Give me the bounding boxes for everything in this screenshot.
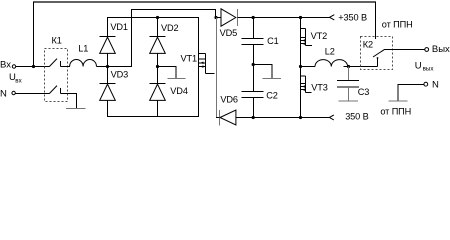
ground chassis G1 (66, 108, 85, 110)
wire midpoint to ground (253, 65, 272, 79)
svg-text:U: U (415, 61, 422, 72)
wire node B to ground (158, 67, 177, 79)
wire N out to ground (398, 85, 424, 102)
diode VD3 (107, 67, 109, 84)
svg-text:К2: К2 (363, 39, 373, 49)
wire N to K1 (15, 93, 49, 95)
svg-text:VD5: VD5 (220, 28, 238, 38)
relay K2 dashed box (361, 37, 393, 70)
node VT2 top (299, 16, 302, 19)
svg-text:VD6: VD6 (220, 95, 238, 105)
wire L2 to K2 (344, 66, 378, 68)
svg-text:вх: вх (15, 77, 22, 84)
capacitor C1 (253, 18, 255, 39)
wire L1 to node A (97, 66, 108, 68)
node A (106, 65, 109, 68)
svg-text:Вх: Вх (0, 60, 11, 71)
node C1/C2 midpoint (252, 63, 255, 66)
bridge right edge / VT1 bus (198, 18, 200, 117)
node VD5 anode junction (214, 16, 217, 19)
svg-text:L2: L2 (325, 46, 335, 56)
node C3 tap (347, 65, 350, 68)
diode VD2 (157, 18, 159, 37)
ground chassis C3 (339, 100, 359, 102)
contact K1.1 arm (49, 59, 57, 67)
wire bypass left drop (33, 2, 35, 67)
node C2 bottom (252, 116, 255, 119)
transistor VT2 (300, 18, 302, 67)
svg-text:VT3: VT3 (311, 82, 328, 92)
arrow +350 В (330, 15, 335, 20)
bridge top rail (107, 17, 199, 19)
svg-text:350 В: 350 В (345, 111, 368, 121)
ground chassis G3 (263, 78, 282, 80)
node VD2 top (156, 16, 159, 19)
svg-text:VD4: VD4 (170, 86, 188, 96)
transistor VT1 (199, 53, 206, 55)
arrow 350 В (329, 115, 333, 120)
node inverter midpoint (299, 65, 302, 68)
contact K2 fixed lower (377, 59, 379, 67)
bridge bottom rail (107, 116, 199, 118)
svg-text:C2: C2 (266, 90, 278, 100)
transistor VT3 (300, 67, 302, 118)
relay K1 dashed box (45, 49, 68, 102)
node bypass tap (32, 65, 35, 68)
contact K1.2 fixed (60, 88, 62, 94)
svg-text:VT2: VT2 (311, 31, 328, 41)
capacitor C2 (253, 65, 255, 92)
node C1 top (252, 16, 255, 19)
terminal N out (424, 82, 428, 86)
svg-text:N: N (432, 79, 439, 90)
svg-text:N: N (0, 88, 7, 99)
svg-text:C1: C1 (267, 36, 279, 46)
svg-text:VT1: VT1 (181, 54, 198, 64)
terminal N (12, 91, 15, 94)
svg-text:VD3: VD3 (111, 70, 129, 80)
wire bypass right drop to K2 (375, 2, 377, 39)
svg-text:от ППН: от ППН (382, 20, 413, 30)
diode VD5 (216, 17, 221, 19)
contact K2 arm (373, 49, 385, 57)
svg-text:VD2: VD2 (161, 23, 179, 33)
node B (156, 65, 159, 68)
diode VD4 (157, 67, 159, 84)
contact K1.1 fixed (60, 61, 62, 67)
wire midpoint to L2 (301, 66, 316, 68)
svg-text:от ППН: от ППН (380, 106, 411, 116)
ground chassis N out (388, 100, 407, 102)
wire Вх to K1 (16, 66, 50, 68)
diode VD1 (107, 18, 109, 37)
svg-text:C3: C3 (358, 87, 370, 97)
terminal Вх (12, 65, 15, 68)
inductor L2 (315, 60, 348, 67)
svg-text:VD1: VD1 (110, 22, 128, 32)
wire bypass top rail (33, 1, 376, 3)
svg-text:L1: L1 (78, 44, 88, 54)
terminal Вых (425, 48, 429, 52)
ground chassis G2 (167, 78, 185, 80)
wire N leg down (76, 94, 78, 109)
contact K1.2 arm (49, 86, 57, 94)
svg-text:+350 В: +350 В (338, 12, 367, 22)
svg-text:К1: К1 (52, 36, 62, 46)
wire K2 to Вых (385, 49, 425, 51)
svg-text:вых: вых (423, 66, 435, 73)
wire node A over to VD5/VD6 (108, 10, 216, 67)
capacitor C3 (348, 67, 350, 81)
wire VD5 anode down to VD6 cathode (216, 18, 218, 118)
diode VD6 (219, 110, 221, 126)
svg-text:Вых: Вых (432, 44, 450, 55)
inductor L1 (70, 59, 97, 66)
node VT3 bottom (299, 116, 302, 119)
